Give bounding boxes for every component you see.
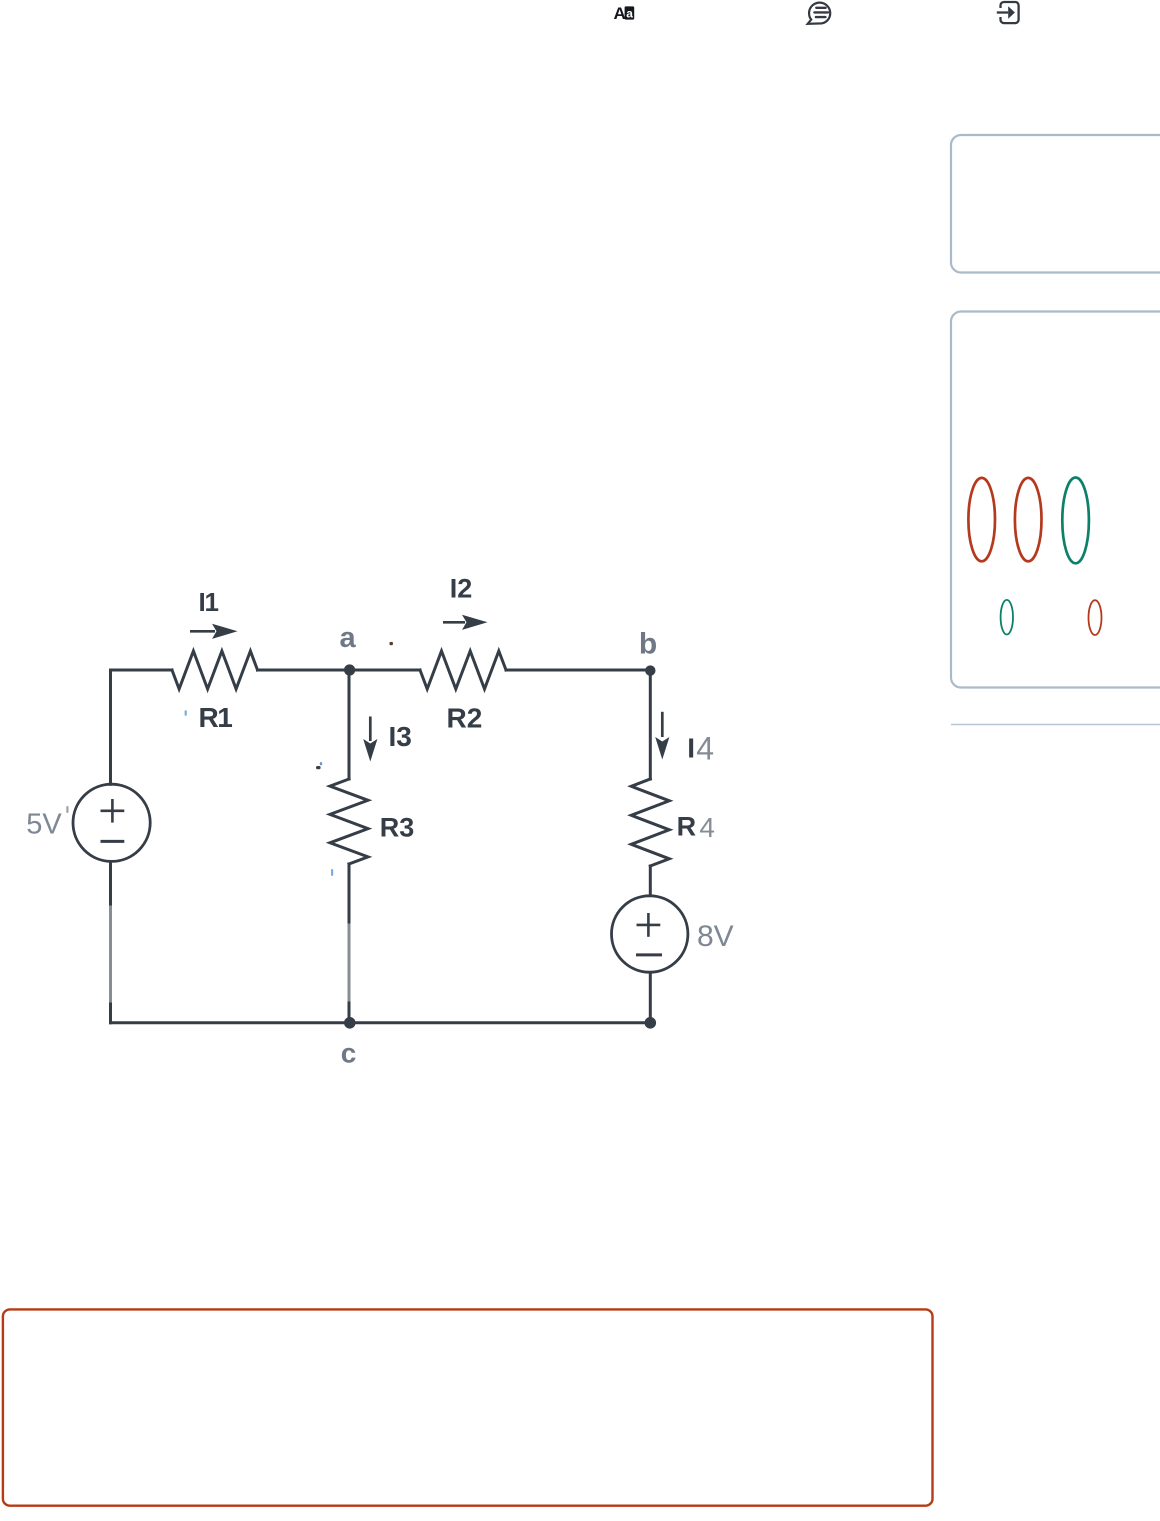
5V minus sign [101,840,125,843]
svg-text:a: a [626,6,633,20]
wire: node b down to R4 [649,670,652,779]
svg-text:8V: 8V [697,920,734,953]
divider line under panel 2 [951,724,1160,726]
svg-text:I: I [687,732,695,763]
annotation oval red small [1089,600,1102,635]
red feedback box (bottom) [3,1309,933,1505]
wire: 8V source to bottom wire [649,973,652,1023]
voltage source 8V circle [612,896,688,972]
annotation oval red 2 [1015,478,1042,561]
8V plus sign [637,913,661,937]
stray blue tick left of R1 [185,710,187,716]
resistor R3 [330,779,368,864]
current arrow I2 [443,615,488,630]
svg-text:c: c [341,1038,357,1069]
stray pen dot right of node a [389,642,393,645]
current arrow I3 [363,717,377,762]
wire: bottom wire [111,1021,651,1024]
node a junction dot [344,664,355,675]
wire: top left segment (5V to R1) [111,669,173,672]
svg-text:4: 4 [696,731,714,767]
current arrow I1 [190,624,238,639]
wire: R3 to bottom wire [348,864,351,1023]
svg-text:R2: R2 [447,703,483,734]
wire: left branch upper (top wire to 5V source) [109,670,112,784]
answer panel box 2 (right, clipped) [951,312,1160,688]
voltage source 5V circle [73,784,150,861]
svg-text:I1: I1 [199,587,219,617]
svg-text:R: R [677,812,697,842]
svg-text:5V: 5V [26,809,62,841]
annotation oval green 1 [1062,478,1089,564]
wire: left branch lower (5V source to bottom wire) [109,862,112,1023]
node b junction dot [645,665,655,675]
stray blue tick below R3 [331,869,333,876]
5V plus sign [101,799,125,823]
8V minus sign [636,953,662,956]
wire: node a down to R3 [348,670,351,779]
current arrow I4 [655,712,669,760]
svg-text:I3: I3 [389,721,412,752]
svg-text:R1: R1 [199,702,233,733]
svg-text:I2: I2 [450,574,473,604]
svg-text:a: a [340,622,357,654]
stray blue speck above that dot [320,762,322,765]
resistor R4 [631,779,669,866]
wire: node a to R2 [349,669,420,672]
wire: R4 to 8V source [649,866,652,895]
svg-text:A: A [614,4,626,23]
stray pen dot left of I3 arrow [316,766,321,769]
resistor R2 [420,651,506,689]
toolbar icon speech bubble [808,3,831,24]
wire: faded middle of R3-c wire [348,925,351,1000]
toolbar icon sign-out (box with right arrow) [997,2,1019,23]
svg-text:R3: R3 [380,812,415,842]
svg-text:4: 4 [699,812,715,843]
wire: faded middle of left branch lower wire [109,907,112,1001]
resistor R1 [172,651,258,689]
svg-text:b: b [639,628,657,661]
node c junction dot [344,1017,356,1029]
wire: R1 to node a [258,669,350,672]
annotation oval red 1 [968,478,995,561]
wire: R2 to node b [506,669,650,672]
bottom-right junction dot [645,1017,657,1029]
answer panel box 1 (right, clipped) [951,135,1160,273]
toolbar icon Aa (font size) [614,4,635,23]
stray grey tick left of 5V circle [66,806,68,813]
annotation oval green small [1001,600,1013,635]
